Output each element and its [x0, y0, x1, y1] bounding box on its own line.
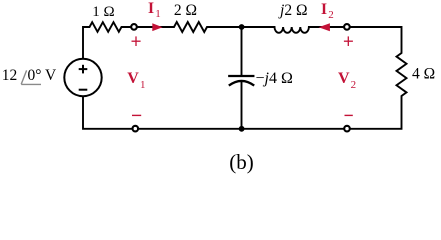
svg-text:2 Ω: 2 Ω: [174, 2, 197, 19]
svg-text:−j4 Ω: −j4 Ω: [256, 70, 293, 87]
svg-text:1 Ω: 1 Ω: [92, 4, 114, 20]
svg-text:1: 1: [155, 8, 161, 20]
svg-text:2: 2: [328, 9, 334, 21]
svg-text:I: I: [148, 0, 154, 17]
svg-text:0° V: 0° V: [28, 67, 58, 84]
svg-text:V: V: [127, 70, 139, 87]
svg-text:12: 12: [2, 67, 17, 84]
svg-text:j2 Ω: j2 Ω: [278, 2, 307, 19]
svg-text:1: 1: [140, 79, 146, 91]
svg-text:4 Ω: 4 Ω: [412, 65, 435, 82]
svg-text:V: V: [338, 70, 350, 87]
svg-text:I: I: [321, 1, 327, 18]
svg-text:2: 2: [351, 79, 357, 91]
svg-text:(b): (b): [229, 150, 254, 174]
